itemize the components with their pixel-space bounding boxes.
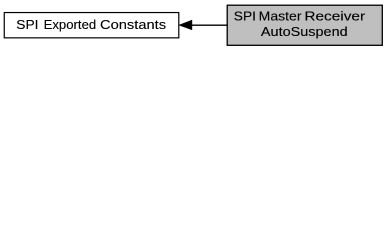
edge arrowhead	[179, 20, 192, 30]
svg-text:Receiver: Receiver	[304, 9, 365, 24]
svg-text:Constants: Constants	[100, 17, 167, 32]
svg-text:SPI: SPI	[16, 17, 38, 32]
svg-text:Exported: Exported	[44, 17, 97, 32]
background	[0, 0, 384, 51]
node: SPI Exported Constants (box)	[4, 13, 179, 38]
edge wire: tail line	[191, 24, 229, 26]
node: SPI Master Receiver AutoSuspend (grey box)	[227, 5, 382, 45]
svg-text:Master: Master	[259, 9, 302, 24]
svg-text:SPI: SPI	[234, 9, 256, 24]
svg-text:AutoSuspend: AutoSuspend	[261, 24, 348, 39]
collaboration diagram: SPI Master Receiver AutoSuspend -> SPI Exported Constants	[0, 0, 384, 51]
